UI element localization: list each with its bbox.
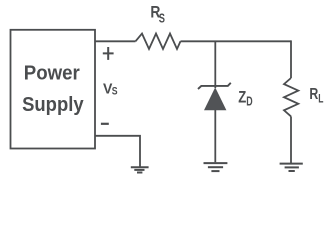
svg-text:D: D [246,94,252,108]
zener diode ZD cathode bar [198,83,231,89]
zener diode ZD triangle [204,87,226,110]
svg-text:Supply: Supply [22,94,84,116]
svg-text:S: S [112,85,118,97]
resistor RS [136,34,181,49]
wire: right corner down to RL [290,40,292,78]
wire: box to Rs [95,40,136,42]
svg-text:Z: Z [238,87,246,106]
plus terminal [103,47,114,60]
svg-text:Power: Power [24,62,80,84]
wire: RL to right ground [290,116,292,163]
wire: junction down to zener [214,41,216,88]
ground (left) [131,167,149,172]
wire: box bottom to left ground [95,136,140,167]
power supply box [11,30,96,149]
svg-text:L: L [318,93,323,105]
wire: Rs to right corner [181,40,292,42]
ground (right) [280,164,303,171]
ground (middle) [204,163,228,171]
minus terminal [101,123,109,125]
svg-text:R: R [309,86,318,103]
svg-text:S: S [159,11,165,25]
resistor RL [284,78,298,116]
wire: zener to middle ground [214,110,216,162]
